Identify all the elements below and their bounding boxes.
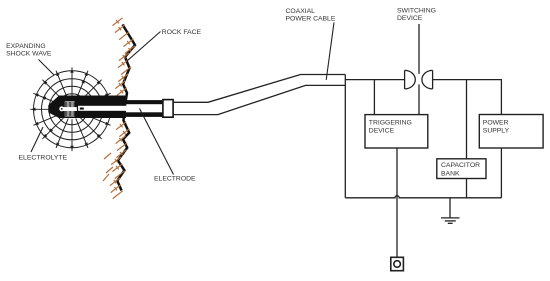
svg-text:SHOCK WAVE: SHOCK WAVE [6, 51, 52, 58]
shock wave spokes [82, 108, 114, 110]
wire: power supply to ground bus [500, 148, 502, 198]
electrode collar [163, 100, 173, 118]
svg-text:ELECTROLYTE: ELECTROLYTE [19, 154, 68, 161]
rock face hatching [103, 18, 135, 199]
rock face line [117, 25, 135, 191]
svg-text:BANK: BANK [441, 170, 460, 177]
svg-text:DEVICE: DEVICE [397, 15, 423, 22]
wire: capacitor bank to ground bus [466, 179, 468, 198]
switching device left electrode [405, 70, 416, 89]
terminal circle [394, 261, 401, 268]
wire: triggering device to terminal [396, 148, 398, 257]
svg-text:CAPACITOR: CAPACITOR [441, 162, 480, 169]
wire: left vertical bus [344, 75, 346, 198]
svg-text:TRIGGERING: TRIGGERING [369, 119, 412, 126]
shock wave arrowheads [105, 122, 110, 125]
wire: trigger electrode lower [418, 84, 420, 114]
svg-text:EXPANDING: EXPANDING [6, 43, 46, 50]
svg-text:ELECTRODE: ELECTRODE [154, 175, 196, 182]
electrode hatch pocket [65, 101, 75, 116]
electrode inner tip circle [59, 106, 64, 111]
svg-text:POWER CABLE: POWER CABLE [286, 16, 336, 23]
electrode shaft top wall [126, 100, 162, 104]
electrode center conductor [78, 106, 126, 111]
svg-text:SUPPLY: SUPPLY [483, 127, 510, 134]
switching device right electrode [422, 70, 433, 89]
coaxial cable bottom line [174, 85, 345, 114]
coaxial cable top line [174, 75, 345, 103]
wire: cable to spark gap [345, 79, 404, 81]
wire: junction to triggering device [373, 80, 375, 115]
svg-text:SWITCHING: SWITCHING [397, 7, 436, 14]
wire: trigger electrode upper [418, 24, 420, 74]
terminal box [391, 257, 404, 270]
wire: junction down to capacitor bank [466, 80, 468, 159]
triggering device box [365, 115, 428, 148]
shock wave circles [57, 94, 88, 125]
electrode inner rod [64, 107, 77, 111]
svg-text:COAXIAL: COAXIAL [286, 8, 316, 15]
electrode body [48, 96, 126, 119]
capacitor bank box [437, 159, 486, 179]
wire: spark gap to power supply corner [433, 80, 502, 115]
power supply box [479, 115, 543, 149]
svg-text:ROCK FACE: ROCK FACE [162, 29, 202, 36]
electrode shaft bottom wall [126, 112, 162, 117]
svg-text:POWER: POWER [483, 119, 509, 126]
ground symbol [441, 198, 460, 224]
ground bus with hop [345, 196, 501, 198]
svg-text:DEVICE: DEVICE [369, 127, 395, 134]
